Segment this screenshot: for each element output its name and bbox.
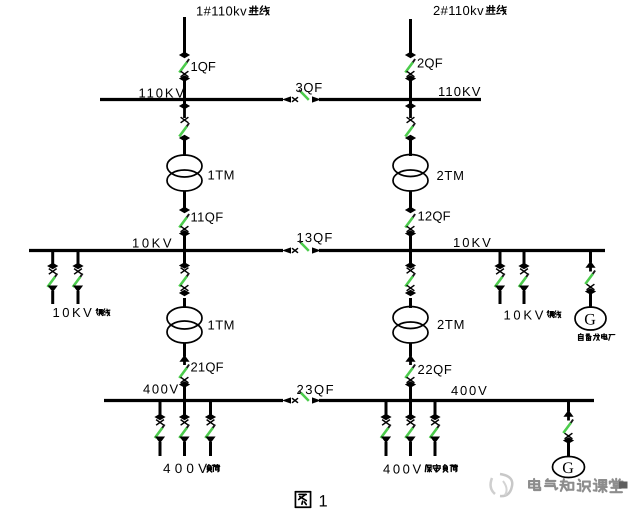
label: 2#110kv incoming line [433,3,506,18]
watermark mark [619,482,628,489]
bus 110KV section II [319,98,481,101]
wire: 400V feeder 3 drop [209,401,212,418]
label 10KV bus II [453,235,493,250]
wire: 21QF to 400V bus I [183,385,186,401]
svg-text:10KV: 10KV [504,308,547,323]
feeder breaker 400V feeder 2 [179,414,190,444]
svg-text:400V: 400V [163,461,211,476]
svg-text:2#110kv: 2#110kv [433,3,484,18]
bus 110KV section I [100,98,283,101]
wire: to transformer 1TM (10/0.4kV) [183,298,186,308]
svg-text:1QF: 1QF [191,59,216,74]
bus-tie breaker 13QF [282,241,321,254]
feeder breaker 400V feeder 4 [380,414,391,444]
feeder breaker 400V feeder 5 [405,414,416,444]
label 400V bus I [143,382,180,397]
wire: 1QF to 110KV bus I [183,77,186,104]
wire: 10KV feeder 2 tail [77,291,80,304]
breaker generator 400V branch [563,410,574,444]
watermark text [529,479,622,492]
feeder breaker 10KV feeder 3 [494,263,505,293]
label: 1#110kv incoming line [196,4,269,19]
transformer 2TM (110/10kV) [393,155,428,192]
wire: 10KV feeder 1 drop [51,251,54,265]
wire: 1TM to 21QF [183,343,186,356]
wire: 11QF to 10KV bus I [183,235,186,265]
svg-text:G: G [584,312,596,329]
svg-text:21QF: 21QF [191,360,224,375]
transformer 2TM (10/0.4kV) [393,307,428,344]
svg-text:400V: 400V [383,462,424,477]
generator G (400V emergency) [553,457,585,478]
label 1QF [191,59,216,74]
wire: 10KV feeder 3 tail [499,291,502,304]
label 21QF [191,360,224,375]
disconnector-breaker below 110KV bus II [405,103,416,142]
wire: 10KV feeder 2 drop [77,251,80,265]
svg-text:10KV: 10KV [53,305,95,320]
disconnector-breaker below 110KV bus I [179,103,190,142]
wire: 400V feeder 4 drop [385,401,388,418]
breaker 11QF [179,207,190,237]
wire: to transformer 1TM [183,140,186,156]
watermark logo [491,474,513,496]
wire: 400V feeder 5 tail [409,442,412,456]
wire: 10KV feeder 4 tail [523,291,526,304]
bus-tie breaker 23QF [282,391,321,404]
wire: 10KV feeder 1 tail [51,291,54,304]
svg-text:11QF: 11QF [191,210,224,225]
breaker 21QF [179,355,190,388]
label 自备发电厂 [579,334,615,341]
bus 400V section II [319,399,594,402]
feeder breaker 400V feeder 3 [205,414,216,444]
wire: 400V feeder 4 tail [385,442,388,456]
label 2TM (lower) [437,317,465,332]
wire: generator 400V tail [567,441,570,457]
label 110KV bus I [139,86,187,101]
breaker 1QF [179,52,190,82]
feeder breaker 400V feeder 6 [429,414,440,444]
breaker 12QF [405,207,416,237]
disconnector-breaker below 10KV bus II [405,262,416,296]
svg-text:10KV: 10KV [453,235,493,250]
feeder breaker 10KV feeder 2 [72,263,83,293]
label 1TM (lower) [208,318,236,333]
wire: 10KV feeder 4 drop [523,251,526,265]
label 3QF [296,80,323,95]
wire: 400V feeder 2 tail [183,442,186,456]
svg-text:400V: 400V [143,382,180,397]
bus-tie breaker 3QF [282,90,321,103]
wire: 1TM to 11QF [183,191,186,209]
label 12QF [418,209,451,224]
svg-text:3QF: 3QF [296,80,323,95]
svg-text:2TM: 2TM [437,317,465,332]
label 22QF [418,362,453,377]
label 400V loads (left) [163,461,220,476]
label 2TM [437,168,465,183]
svg-text:2QF: 2QF [417,56,443,71]
disconnector-breaker below 10KV bus I [179,262,190,296]
feeder breaker 400V feeder 1 [154,414,165,444]
wire: 22QF to 400V bus II [409,385,412,401]
wire: to transformer 2TM (10/0.4kV) [409,298,412,308]
bus 10KV section II [319,249,605,252]
label 23QF [297,382,336,397]
wire: to transformer 2TM [409,140,412,156]
label 10KV feeders (right) [504,308,561,323]
transformer 1TM (110/10kV) [167,155,202,191]
wire: 400V feeder 3 tail [209,442,212,456]
feeder breaker 10KV feeder 4 [518,263,529,293]
wire: 400V feeder 1 tail [159,442,162,456]
wire: generator branch tail [589,292,592,308]
wire: 2TM to 22QF [409,343,412,356]
svg-text:1: 1 [319,493,328,511]
wire: generator branch to 400V bus II [567,401,570,412]
wire: 12QF to 10KV bus II [409,235,412,265]
svg-text:10KV: 10KV [132,236,174,251]
wire: 400V feeder 2 drop [183,401,186,418]
label 10KV feeders (left) [53,305,110,320]
svg-text:22QF: 22QF [418,362,453,377]
svg-text:1#110kv: 1#110kv [196,4,247,19]
svg-text:110KV: 110KV [438,84,482,99]
label 400V bus II [451,383,489,398]
wire: 1# incoming drop [183,17,186,56]
bus 400V section I [104,399,283,402]
bus 10KV section I [29,249,283,252]
wire: 2QF to 110KV bus II [409,77,412,104]
feeder breaker 10KV feeder 1 [47,263,58,293]
label 13QF [297,230,334,245]
wire: 400V feeder 5 drop [409,401,412,418]
svg-text:400V: 400V [451,383,489,398]
wire: 400V feeder 6 tail [434,442,437,456]
label 11QF [191,210,224,225]
wire: 10KV feeder 3 drop [499,251,502,265]
wire: 400V feeder 1 drop [159,401,162,418]
wire: 2# incoming drop [409,19,412,56]
svg-text:12QF: 12QF [418,209,451,224]
label 1TM [208,168,236,183]
label 400V security loads (right) [383,462,457,477]
caption 图1 [295,492,327,511]
svg-text:1TM: 1TM [208,168,236,183]
label 10KV bus I [132,236,174,251]
transformer 1TM (10/0.4kV) [167,307,202,343]
svg-text:1TM: 1TM [208,318,236,333]
wire: 400V feeder 6 drop [434,401,437,418]
wire: generator branch to 10KV bus II [589,251,592,263]
breaker 22QF [405,355,416,388]
wire: 2TM to 12QF [409,191,412,209]
breaker generator 10KV branch [585,261,596,295]
svg-text:G: G [562,460,574,477]
generator G (10KV standby plant) [575,307,606,330]
svg-text:2TM: 2TM [437,168,465,183]
label 2QF [417,56,443,71]
breaker 2QF [405,52,416,82]
label 110KV bus II [438,84,482,99]
